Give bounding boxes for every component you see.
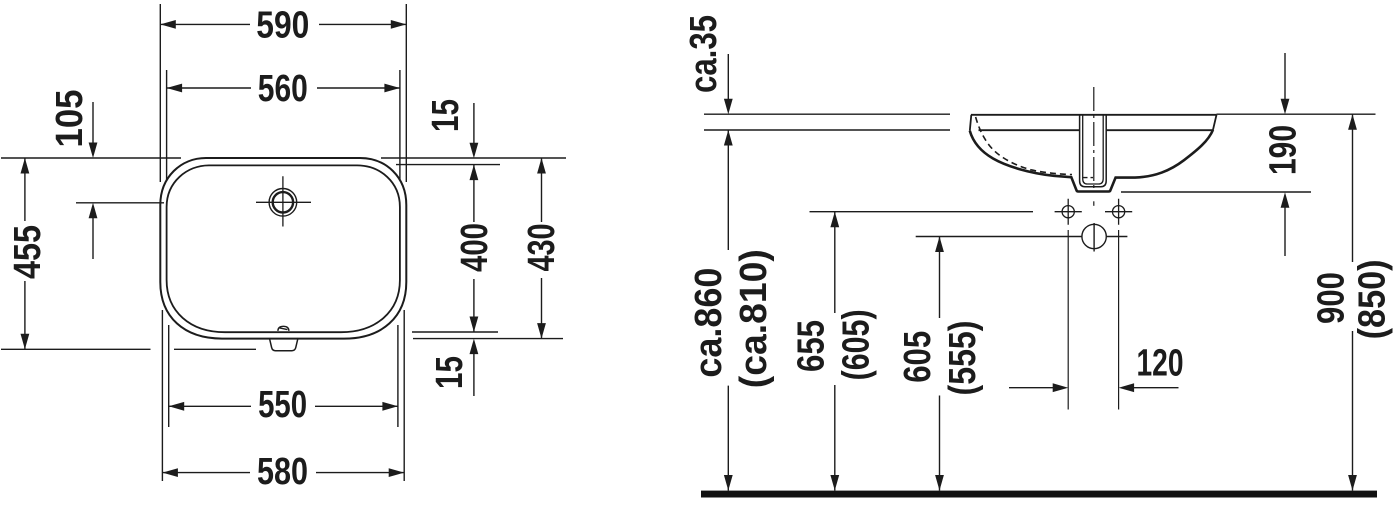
mounting depth reference line (190 end) (1121, 191, 1311, 193)
hidden drain edge (dashed) (1083, 177, 1094, 179)
svg-text:900: 900 (1311, 272, 1353, 324)
dimension 655 (605) (791, 212, 878, 491)
dimension 400 (454, 165, 496, 332)
dimension 15 top right (425, 99, 478, 158)
extension lines 590 (160, 4, 406, 182)
dimension 430 (521, 158, 563, 339)
svg-text:605: 605 (897, 331, 939, 383)
extension lines 580 (162, 310, 404, 481)
cutout bottom reference line (400 end) (412, 331, 498, 333)
svg-text:590: 590 (256, 4, 309, 46)
svg-text:580: 580 (257, 451, 308, 493)
basin inner outline (plan) (167, 165, 400, 332)
svg-text:(ca.810): (ca.810) (733, 249, 775, 388)
basin bottom reference line (430 end) (413, 338, 563, 340)
fixing hole right (1105, 199, 1132, 225)
svg-text:15: 15 (425, 99, 467, 132)
dimension ca.860 (ca.810) (688, 130, 775, 491)
svg-text:120: 120 (1137, 342, 1184, 384)
dimension 190 (1263, 53, 1305, 256)
svg-text:(555): (555) (942, 321, 984, 396)
counter bottom line (section) (704, 129, 950, 131)
centerline (dash-dot) (1093, 87, 1095, 191)
basin rim (section) (970, 115, 1217, 131)
svg-text:ca.860: ca.860 (688, 268, 730, 378)
dimension 120 (1009, 342, 1184, 392)
dimension 455 (7, 158, 49, 349)
overflow hole (plan) (278, 326, 289, 331)
overflow column outer (section) (1080, 115, 1107, 187)
dimension 105 (49, 90, 97, 260)
basin outer outline (plan) (160, 158, 406, 339)
extension lines 550 (169, 325, 398, 427)
svg-text:455: 455 (7, 225, 49, 279)
faucet hole (256, 176, 311, 226)
svg-text:15: 15 (429, 356, 471, 389)
dimension 900 (850) (1311, 114, 1394, 490)
svg-text:105: 105 (49, 90, 91, 148)
dimension 590 (160, 4, 406, 46)
svg-text:655: 655 (791, 320, 833, 372)
svg-text:560: 560 (258, 68, 308, 110)
drain spout (plan) (269, 338, 298, 351)
hidden inner bowl line (dashed) (976, 117, 1072, 175)
drain circle (1082, 223, 1128, 252)
svg-text:190: 190 (1263, 125, 1305, 175)
faucet axis reference line (76, 202, 164, 204)
svg-text:(850): (850) (1352, 259, 1394, 339)
fixing hole left (1055, 199, 1082, 225)
dimension 560 (167, 68, 400, 110)
top reference line (basin top tangent, plan view) (1, 157, 566, 159)
drain trap reference line (605 level) (916, 236, 1082, 238)
dimension 15 bottom right (429, 339, 478, 396)
fixing holes reference line (655 level) (810, 211, 1034, 213)
svg-text:400: 400 (454, 223, 496, 272)
bowl outer profile (section) (970, 130, 1213, 192)
svg-text:(605): (605) (836, 309, 878, 380)
floor line (701, 491, 1377, 498)
extension lines 120 (1068, 230, 1118, 410)
dimension 605 (555) (897, 237, 984, 491)
dimension 580 (162, 451, 404, 493)
dimension ca.35 (683, 15, 733, 114)
svg-text:550: 550 (258, 384, 307, 426)
rim step reference line (15 below top) (396, 164, 500, 166)
extension lines 560 (167, 70, 400, 180)
svg-text:ca.35: ca.35 (683, 15, 725, 93)
counter top line (section) (704, 113, 1376, 115)
drain bottom reference line (455 end) (1, 348, 256, 350)
svg-text:430: 430 (521, 224, 563, 272)
overflow column inner (section) (1083, 115, 1104, 184)
dimension 550 (169, 384, 398, 426)
